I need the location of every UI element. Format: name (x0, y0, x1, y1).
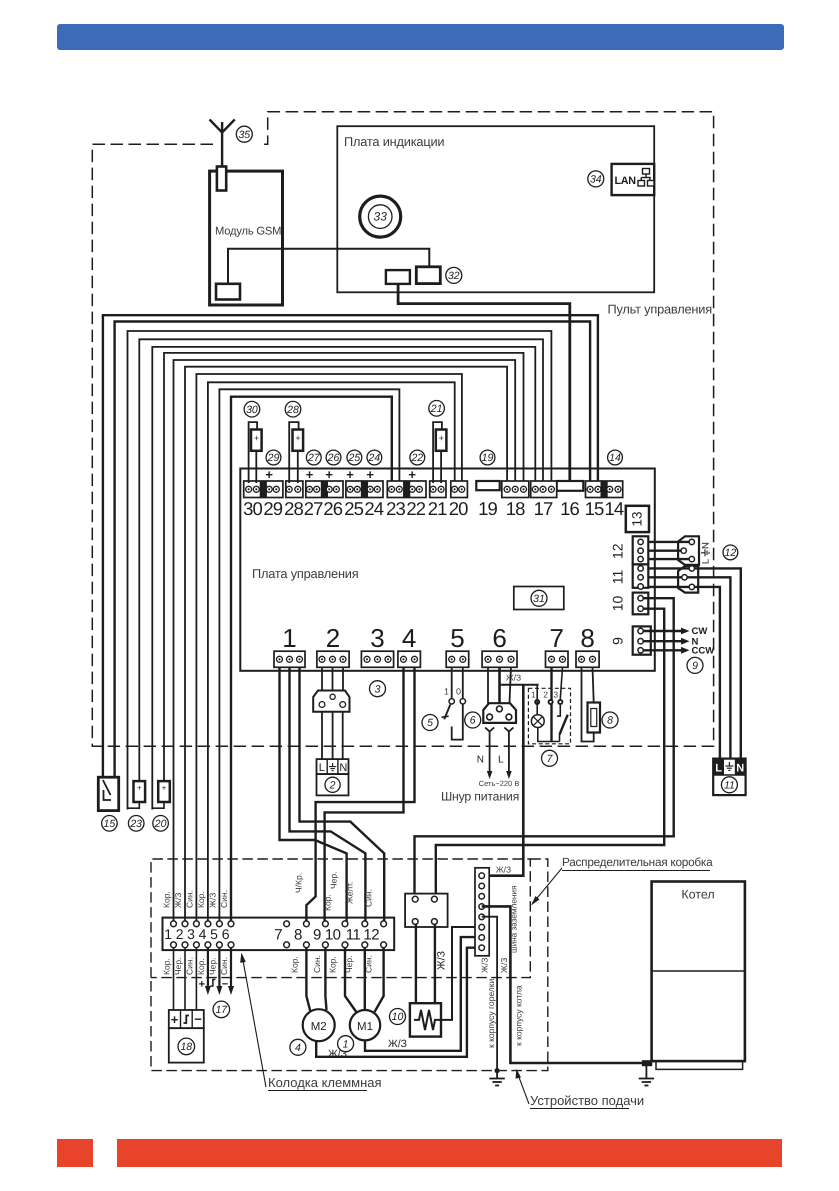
svg-text:16: 16 (560, 498, 579, 519)
svg-text:Модуль GSM: Модуль GSM (215, 226, 281, 238)
колодка terminal 11 (362, 921, 368, 927)
svg-text:L: L (715, 763, 722, 775)
component 2: L-PE-N block (317, 759, 349, 774)
колодка terminal 4 (205, 921, 211, 927)
label 11 (721, 777, 737, 793)
wire bundle 7 (174, 360, 516, 925)
label 7 (542, 750, 558, 766)
dashed boundary: Пульт управления enclosure (92, 112, 713, 747)
svg-text:+: + (408, 467, 416, 482)
label 21 (429, 401, 445, 417)
wire bundle 4 (139, 339, 543, 783)
svg-text:1: 1 (444, 687, 449, 697)
label 35 (236, 126, 252, 142)
svg-text:13: 13 (630, 511, 645, 526)
external connector 11 (L-PE-N) (713, 759, 745, 796)
boiler ground pad (642, 1060, 652, 1066)
label 34 (588, 171, 604, 187)
plug pins upper (689, 539, 694, 544)
label 14 (608, 450, 623, 465)
svg-text:10: 10 (325, 927, 341, 944)
svg-text:1: 1 (343, 1038, 349, 1050)
svg-text:+: + (265, 467, 273, 482)
svg-text:18: 18 (180, 1041, 192, 1053)
svg-text:8: 8 (607, 715, 613, 727)
board terminal 4 block (398, 651, 421, 667)
svg-text:22: 22 (406, 498, 425, 519)
svg-text:33: 33 (374, 210, 388, 224)
CW N CCW output wires (643, 630, 681, 632)
connector 10 (633, 593, 649, 615)
svg-text:L: L (319, 762, 325, 774)
svg-text:6: 6 (470, 715, 476, 727)
svg-text:11: 11 (610, 570, 626, 585)
svg-text:Шнур питания: Шнур питания (441, 790, 519, 804)
footer red square (57, 1139, 93, 1167)
terminal block (286, 481, 303, 498)
terminal 28 pins (286, 486, 292, 492)
LAN port 34 (612, 164, 655, 195)
wires connector 12 to mains plug (648, 541, 692, 543)
svg-text:+: + (325, 467, 333, 482)
earth wire Ж/З to ground bus (500, 684, 539, 686)
svg-text:4: 4 (199, 926, 207, 942)
component 10: heater (410, 1003, 441, 1036)
svg-text:21: 21 (428, 498, 447, 519)
svg-text:Колодка клеммная: Колодка клеммная (268, 1075, 382, 1090)
terminal block (586, 481, 623, 498)
колодка terminal 6 (228, 921, 234, 927)
sensor component 30 (249, 422, 258, 483)
junction connector (2x2) (405, 894, 448, 927)
svg-text:3: 3 (187, 926, 195, 942)
svg-text:1: 1 (531, 690, 536, 700)
svg-text:18: 18 (506, 498, 525, 519)
label 22 (410, 450, 425, 465)
svg-text:Син.: Син. (219, 957, 229, 975)
svg-text:26: 26 (327, 452, 340, 464)
svg-text:N: N (477, 755, 484, 766)
M1 earth wire (365, 937, 482, 1051)
индикации board box (337, 126, 654, 292)
terminal 20 pins (452, 486, 458, 492)
svg-text:L: L (498, 755, 504, 766)
svg-text:28: 28 (286, 404, 299, 416)
svg-text:+: + (171, 1012, 179, 1027)
svg-text:Распределительная коробка: Распределительная коробка (562, 855, 713, 869)
label 1 (338, 1036, 354, 1052)
terminal block (346, 481, 383, 498)
svg-text:Син.: Син. (184, 890, 194, 908)
svg-text:10: 10 (392, 1011, 404, 1023)
label 5 (422, 715, 438, 731)
svg-text:Ж/З: Ж/З (436, 951, 448, 970)
wire: connector A to terminal 16 (398, 284, 570, 483)
svg-text:Плата управления: Плата управления (252, 566, 359, 581)
svg-text:2: 2 (176, 926, 184, 942)
label 24 (367, 450, 382, 465)
svg-text:2: 2 (326, 623, 340, 653)
svg-text:23: 23 (386, 498, 405, 519)
connector 12 pins (638, 539, 643, 544)
колодка terminal 12 (381, 921, 387, 927)
svg-text:17: 17 (534, 498, 553, 519)
wires terminal 6 to socket (487, 667, 489, 714)
svg-text:+: + (306, 467, 314, 482)
svg-text:3: 3 (553, 690, 558, 700)
svg-text:25: 25 (344, 498, 363, 519)
svg-text:5: 5 (450, 623, 464, 653)
колодка terminal 10 (342, 921, 348, 927)
svg-text:Кор.: Кор. (290, 956, 300, 973)
svg-text:3: 3 (370, 623, 384, 653)
footer red bar (117, 1139, 782, 1167)
terminal 22 pins (409, 486, 415, 492)
svg-text:Сеть~220 В: Сеть~220 В (479, 779, 520, 788)
svg-text:Ж/З: Ж/З (506, 673, 521, 683)
svg-text:31: 31 (533, 593, 545, 605)
svg-text:N: N (339, 762, 347, 774)
svg-text:Чер.: Чер. (329, 872, 339, 889)
svg-text:22: 22 (410, 452, 423, 464)
box 13 (626, 506, 649, 532)
plug of component 2 (313, 691, 349, 712)
component 18: counter terminal (169, 1010, 204, 1028)
svg-text:20: 20 (154, 818, 167, 830)
wire bundle 10 (208, 382, 455, 925)
connector 12 (633, 536, 649, 564)
board terminal 1 block (274, 651, 305, 667)
svg-text:+: + (439, 433, 444, 443)
wires terminal 4 to terminal block 8-9 (325, 667, 404, 921)
heater earth wire (441, 927, 482, 1020)
label 3 (370, 681, 386, 697)
mains cord arrows N L (485, 728, 494, 732)
svg-text:4: 4 (402, 623, 416, 653)
svg-text:35: 35 (238, 129, 250, 141)
terminal 21 pins (430, 486, 436, 492)
svg-text:11: 11 (346, 927, 361, 944)
wire bundle 11 (219, 389, 399, 925)
svg-text:Плата индикации: Плата индикации (344, 134, 444, 149)
ground symbol burner (489, 1071, 504, 1086)
label 26 (326, 450, 341, 465)
колодка terminal 7 (284, 921, 290, 927)
label 30 (244, 401, 260, 417)
колодка terminal 1 (171, 921, 177, 927)
svg-text:L: L (701, 559, 712, 564)
svg-text:3: 3 (375, 683, 381, 695)
motor M2 (306, 947, 310, 1012)
connector 11 pins (638, 566, 643, 571)
svg-text:Син.: Син. (219, 890, 229, 908)
svg-text:к корпусу горелки: к корпусу горелки (486, 979, 496, 1048)
wires колодка 1-3 to component 18 (173, 947, 175, 1010)
svg-text:27: 27 (307, 452, 321, 464)
svg-text:14: 14 (605, 498, 624, 519)
Котел box (652, 882, 745, 1062)
svg-text:12: 12 (725, 547, 737, 559)
terminal block (244, 481, 283, 498)
terminal block (387, 481, 426, 498)
label 10 (390, 1009, 406, 1025)
component 23: sensor (134, 781, 146, 802)
wire bundle 12 (231, 397, 392, 925)
svg-text:25: 25 (348, 452, 361, 464)
svg-text:Кор.: Кор. (162, 891, 172, 908)
component 6: power socket (483, 703, 516, 723)
connector 9 pins (638, 628, 643, 633)
terminal 29 pins (266, 486, 272, 492)
board terminal 5 block (446, 651, 469, 667)
svg-text:2: 2 (329, 779, 336, 791)
component 2 body (317, 774, 349, 795)
svg-text:Кор.: Кор. (196, 891, 206, 908)
ground bus (шина заземления) (475, 868, 489, 956)
svg-text:Ж/З: Ж/З (388, 1038, 407, 1050)
terminal 17 pins (532, 486, 538, 492)
label 12 (723, 545, 738, 560)
wires terminal 1 to terminal block 10-12 (280, 667, 347, 921)
wire bundle 6 (164, 353, 524, 783)
label 19 (480, 450, 495, 465)
wires terminal 2 to plug 2 (321, 667, 323, 692)
svg-text:+: + (366, 467, 374, 482)
label 8 (602, 712, 618, 728)
svg-text:Кор.: Кор. (162, 958, 172, 975)
label 4 (290, 1039, 306, 1055)
terminal 25 pins (347, 486, 353, 492)
svg-text:+: + (295, 433, 300, 443)
label 17 (213, 1001, 230, 1018)
svg-text:Кор.: Кор. (328, 956, 338, 973)
component 7: switch with lamp (dashed) (528, 688, 570, 744)
terminal block (430, 481, 446, 498)
svg-text:+: + (254, 433, 259, 443)
svg-text:к корпусу котла: к корпусу котла (514, 985, 524, 1046)
label 28 (285, 401, 301, 417)
svg-text:14: 14 (609, 452, 621, 464)
svg-text:Чер.: Чер. (173, 958, 183, 975)
terminal 16 connector (557, 481, 584, 491)
svg-text:М2: М2 (311, 1021, 327, 1033)
terminal 26 pins (326, 486, 332, 492)
svg-text:29: 29 (267, 452, 280, 464)
svg-text:+: + (137, 784, 142, 793)
svg-text:8: 8 (580, 623, 594, 653)
label 31 (531, 590, 547, 606)
label 9 (687, 657, 703, 673)
board terminal 2 block (317, 651, 349, 667)
svg-text:Син.: Син. (312, 955, 322, 973)
svg-text:12: 12 (610, 543, 626, 559)
svg-text:7: 7 (274, 927, 282, 944)
svg-text:+: + (346, 467, 354, 482)
dashed outer enclosure (устройство подачи) (151, 859, 548, 1071)
svg-text:Ч/Кр.: Ч/Кр. (294, 873, 304, 893)
колодка terminal 5 (217, 921, 223, 927)
svg-text:−: − (194, 1012, 202, 1027)
svg-text:Син.: Син. (184, 957, 194, 975)
svg-text:Кор.: Кор. (323, 894, 333, 911)
wires connector 10 to junction connector (415, 598, 674, 896)
svg-text:Ж/З: Ж/З (480, 958, 490, 973)
terminal 23 pins (389, 486, 395, 492)
component 8: fuse (582, 667, 594, 742)
svg-text:+: + (162, 784, 167, 793)
svg-text:+: + (199, 979, 205, 991)
box 31 (514, 587, 564, 610)
svg-text:Ж/З: Ж/З (499, 958, 509, 973)
svg-text:9: 9 (692, 660, 698, 672)
wire bundle 3 (128, 331, 552, 810)
label 20 (153, 816, 169, 832)
label 15 (102, 816, 118, 832)
svg-text:1: 1 (164, 926, 172, 942)
connector A on indication board (386, 270, 410, 284)
svg-text:24: 24 (368, 452, 381, 464)
terminal block (451, 481, 468, 498)
wire bundle 9 (196, 374, 462, 925)
board terminal 8 block (576, 651, 599, 667)
svg-text:Ж/З: Ж/З (173, 893, 183, 908)
label 25 (347, 450, 362, 465)
svg-text:Желт.: Желт. (345, 882, 355, 904)
GSM module box (210, 171, 283, 305)
svg-text:7: 7 (550, 623, 564, 653)
svg-text:N: N (736, 763, 744, 775)
motor M1 (345, 947, 356, 1012)
label 2 (325, 777, 340, 792)
svg-text:19: 19 (478, 498, 497, 519)
колодка terminal 9 (323, 921, 329, 927)
terminal 14 pins (607, 486, 613, 492)
connector 11 (633, 564, 649, 587)
connector B on indication board (416, 267, 440, 284)
svg-text:М1: М1 (357, 1021, 373, 1033)
wire: GSM internal connector to board 32 (228, 249, 429, 284)
svg-text:1: 1 (282, 623, 296, 653)
колодка terminal 2 (182, 921, 188, 927)
connector 10 pins (638, 596, 643, 601)
svg-text:4: 4 (295, 1042, 301, 1054)
wire bundle 8 (185, 367, 507, 925)
GSM bottom connector (216, 284, 240, 300)
svg-text:Ж/З: Ж/З (496, 865, 511, 875)
wires plug to L-PE-N block (321, 712, 323, 759)
label 23 (128, 816, 144, 832)
svg-text:20: 20 (449, 498, 468, 519)
колодка 4-6 output arrows (207, 947, 209, 988)
svg-text:N: N (701, 542, 712, 549)
wire bundle 1 (103, 315, 598, 779)
svg-text:Устройство подачи: Устройство подачи (530, 1093, 644, 1108)
колодка terminal 8 (304, 921, 310, 927)
terminal 17 block (531, 481, 557, 498)
wire bus to burner body + ground (482, 917, 497, 1071)
sensor component 21 (433, 422, 442, 483)
label 32 (446, 267, 462, 283)
svg-text:21: 21 (430, 403, 443, 415)
wire bundle 2 (115, 322, 590, 780)
svg-text:LAN: LAN (615, 175, 637, 187)
sensor component 28 (289, 422, 298, 483)
terminal 24 pins (367, 486, 373, 492)
mains plug upper (L-PE-N) (678, 536, 699, 565)
label 33 (display) (360, 196, 401, 237)
terminal 18 pins (504, 486, 510, 492)
svg-text:24: 24 (364, 498, 383, 519)
svg-text:5: 5 (427, 717, 433, 729)
M2 earth wire (316, 948, 482, 1057)
svg-text:12: 12 (363, 927, 379, 944)
wires connector 11 to plug and external (648, 568, 741, 758)
terminal 30 pins (246, 486, 252, 492)
svg-text:26: 26 (323, 498, 342, 519)
svg-text:10: 10 (610, 596, 626, 612)
колодка клеммная strip (163, 918, 395, 951)
dashed box: распределительная коробка (151, 859, 530, 978)
svg-text:9: 9 (610, 637, 626, 645)
svg-text:28: 28 (284, 498, 303, 519)
svg-text:23: 23 (129, 818, 142, 830)
header bar (57, 24, 784, 50)
svg-text:29: 29 (263, 498, 282, 519)
component 5: power switch (451, 667, 453, 699)
svg-text:34: 34 (590, 173, 602, 185)
connector 9 (633, 626, 651, 654)
svg-text:15: 15 (585, 498, 604, 519)
label 6 (465, 712, 481, 728)
svg-text:9: 9 (313, 927, 321, 944)
svg-text:2: 2 (543, 690, 548, 700)
svg-text:Син.: Син. (364, 889, 374, 907)
svg-text:6: 6 (222, 926, 230, 942)
terminal 19 connector (476, 481, 499, 490)
svg-text:15: 15 (104, 818, 116, 830)
plug pins lower (689, 566, 694, 571)
svg-text:8: 8 (294, 927, 302, 944)
label 27 (306, 450, 321, 465)
svg-text:Кор.: Кор. (196, 958, 206, 975)
svg-text:27: 27 (304, 498, 323, 519)
svg-text:0: 0 (456, 687, 461, 697)
component 20: sensor (158, 781, 170, 802)
terminal block (306, 481, 343, 498)
wires junction connector to heater (415, 924, 417, 1003)
svg-text:5: 5 (210, 926, 218, 942)
svg-text:Котел: Котел (681, 888, 714, 902)
wire bundle 5 (152, 347, 535, 810)
label 18 (178, 1038, 195, 1055)
ground symbol boiler (639, 1066, 654, 1086)
svg-text:Ж/З: Ж/З (207, 893, 217, 908)
svg-text:CCW: CCW (692, 646, 715, 657)
terminal 18 block (502, 481, 529, 498)
plug lower (678, 566, 698, 593)
колодка terminal 3 (194, 921, 200, 927)
svg-text:19: 19 (482, 452, 494, 464)
svg-text:11: 11 (724, 779, 735, 791)
boiler base plate (656, 1061, 743, 1069)
component 15: thermostat switch (98, 777, 118, 810)
svg-text:17: 17 (215, 1004, 228, 1016)
terminal 27 pins (307, 486, 313, 492)
svg-text:30: 30 (246, 404, 258, 416)
control board box (Плата управления) (240, 469, 655, 671)
svg-text:32: 32 (448, 270, 460, 282)
board terminal 3 block (361, 651, 393, 667)
